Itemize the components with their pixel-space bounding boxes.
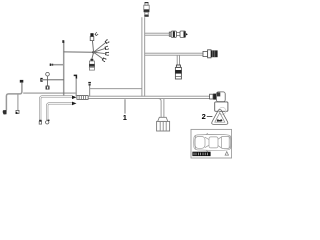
mini triangle marker (225, 152, 228, 156)
wire branch single to right harness (90, 88, 142, 90)
wire fan arm D (94, 52, 103, 58)
node fan junction (92, 51, 95, 54)
part code label (192, 152, 210, 156)
connector C4 inline bullets (169, 31, 188, 37)
wire fan arm C (94, 52, 105, 53)
connector C5 (203, 50, 218, 58)
small assembly ring terminal (41, 72, 64, 89)
connector C3 top (144, 2, 150, 17)
wire main band tube (89, 96, 210, 98)
wire main vertical harness tube (142, 17, 145, 96)
svg-text:1: 1 (123, 113, 127, 122)
terminal fork FA (104, 39, 109, 44)
wire fan arm A (94, 43, 106, 53)
wire stub S5 (88, 82, 91, 96)
wire W-left with cap terminal (3, 80, 24, 115)
wire main band thin line L1 (23, 92, 76, 94)
connector W2 end (39, 120, 42, 124)
car thumbnail box (191, 129, 232, 158)
wire drop tube to C7 (159, 99, 164, 118)
wire stub with terminal S1 (50, 64, 64, 66)
terminal fork FC (105, 52, 109, 56)
wire W3 with corner (47, 103, 72, 120)
wire drop tube to C6 (177, 55, 179, 65)
connector C2 sensor plug (89, 59, 95, 70)
connector C8 right-angle plug (210, 92, 228, 115)
node tick at top of vertical branch (62, 40, 64, 43)
corrugated tube section (77, 96, 88, 100)
label 2 leader (207, 116, 213, 118)
terminal fork FD (102, 57, 107, 62)
svg-text:2: 2 (202, 112, 206, 121)
wire branch tube to C5 (145, 53, 203, 55)
wire branch tube to C4 (145, 33, 170, 35)
label 1 leader (124, 99, 126, 113)
terminal fork FB (104, 46, 108, 51)
wire fan arm B (94, 49, 105, 53)
car top view (194, 133, 232, 152)
warning triangle symbol (212, 110, 228, 125)
wire W-left2 drop (16, 94, 19, 114)
wire junction to connector C2 (92, 52, 94, 59)
connector W3 end ring (46, 120, 50, 124)
wire W2 with corner (40, 96, 72, 119)
connector C1 (90, 33, 94, 40)
wire vertical branch left of fan (63, 42, 65, 96)
terminal arrow A2 (72, 102, 77, 106)
connector C7 main plug (157, 117, 170, 131)
wire stub S4 (74, 75, 77, 96)
wire junction to connector C1 (92, 41, 93, 53)
terminal arrow A1 (72, 96, 77, 100)
wire fan feeder horizontal (64, 51, 94, 53)
terminal fork F0 (94, 32, 98, 36)
connector C6 (175, 65, 181, 79)
